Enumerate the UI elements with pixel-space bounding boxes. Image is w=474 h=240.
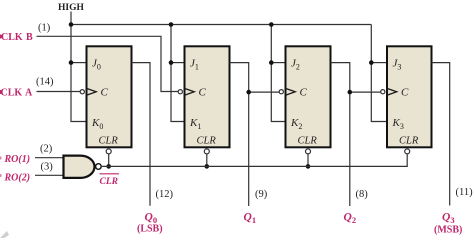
JK flip-flop FF1 xyxy=(178,46,229,147)
page artifact bottom-left xyxy=(0,231,9,238)
svg-text:(1): (1) xyxy=(38,23,51,34)
node junction HIGH rail at FF2 xyxy=(269,22,274,27)
node junction J3 xyxy=(369,60,374,65)
svg-text:(LSB): (LSB) xyxy=(137,224,163,235)
JK flip-flop FF0 xyxy=(80,46,131,147)
wire RO(2) to NAND xyxy=(35,174,64,176)
svg-text:C: C xyxy=(401,86,409,98)
wire HIGH vertical drop to J0/K0 xyxy=(71,12,87,122)
NAND gate G1 xyxy=(64,156,95,178)
wire HIGH drop FF3 xyxy=(371,25,387,122)
svg-text:(2): (2) xyxy=(40,143,53,154)
wire CLK B to FF1 clock xyxy=(37,36,179,91)
FF1 CLR bubble xyxy=(204,149,209,154)
node junction FF0 CLR on rail xyxy=(106,164,111,169)
wire RO(1) to NAND xyxy=(35,157,64,159)
NAND output bubble xyxy=(96,164,102,170)
node junction J1 xyxy=(169,60,174,65)
node junction FF1 CLR on rail xyxy=(205,164,210,169)
wire FF1 CLR to rail xyxy=(206,154,208,167)
wire Q3 output down to pin 11 xyxy=(432,63,450,206)
node junction HIGH rail at FF0 xyxy=(69,22,74,27)
svg-text:CLK B: CLK B xyxy=(1,32,33,43)
svg-text:(11): (11) xyxy=(456,187,474,198)
svg-text:C: C xyxy=(300,86,308,98)
input arrow stub CLK A xyxy=(0,90,3,94)
svg-text:CLR: CLR xyxy=(298,136,318,147)
wire Q2 to FF3 clock xyxy=(350,91,381,93)
svg-text:CLR: CLR xyxy=(100,177,118,187)
wire Q1 to FF2 clock xyxy=(249,91,280,93)
node junction J2 xyxy=(269,60,274,65)
input arrow stub RO2 xyxy=(0,174,2,177)
wire Q0 output down to pin 12 xyxy=(132,63,151,206)
wire Q2 output down to pin 8 xyxy=(331,63,350,206)
svg-text:CLR: CLR xyxy=(99,136,119,147)
svg-text:(12): (12) xyxy=(156,189,174,200)
svg-text:(9): (9) xyxy=(255,189,268,200)
svg-text:C: C xyxy=(101,86,109,98)
wire HIGH rail xyxy=(71,24,371,26)
svg-text:RO(2): RO(2) xyxy=(4,173,31,184)
input arrow stub RO1 xyxy=(0,156,2,159)
svg-text:(3): (3) xyxy=(41,162,54,173)
svg-text:(8): (8) xyxy=(356,189,369,200)
wire Q1 output down to pin 9 xyxy=(230,63,249,206)
JK flip-flop FF2 xyxy=(279,46,330,147)
svg-text:(MSB): (MSB) xyxy=(434,225,462,236)
node junction Q2/CLK3 xyxy=(348,90,353,95)
wire J0 stub xyxy=(71,62,87,64)
svg-text:CLR: CLR xyxy=(399,136,419,147)
node CLR-bar label with overline xyxy=(100,174,120,187)
JK flip-flop FF3 xyxy=(381,46,432,147)
wire CLK A to FF0 clock xyxy=(37,91,81,93)
svg-text:CLR: CLR xyxy=(197,136,217,147)
FF3 CLR bubble xyxy=(405,149,410,154)
FF0 CLR bubble xyxy=(106,149,111,154)
FF2 CLR bubble xyxy=(306,149,311,154)
node junction FF2 CLR on rail xyxy=(306,164,311,169)
svg-text:C: C xyxy=(199,86,207,98)
wire FF0 CLR to rail xyxy=(108,154,110,167)
node junction HIGH rail at FF1 xyxy=(169,22,174,27)
node junction Q1/CLK2 xyxy=(246,90,251,95)
node junction J0 xyxy=(69,60,74,65)
input arrow stub CLK B xyxy=(0,35,3,39)
wire J1 stub xyxy=(171,62,185,64)
svg-text:(14): (14) xyxy=(36,77,54,88)
wire J3 stub xyxy=(371,62,387,64)
wire FF2 CLR to rail xyxy=(307,154,309,167)
wire HIGH drop FF2 xyxy=(271,25,285,122)
svg-text:CLK A: CLK A xyxy=(1,88,33,99)
wire CLR rail xyxy=(101,154,407,166)
wire HIGH drop FF1 xyxy=(171,25,185,122)
wire J2 stub xyxy=(271,62,285,64)
svg-text:RO(1): RO(1) xyxy=(4,154,31,165)
